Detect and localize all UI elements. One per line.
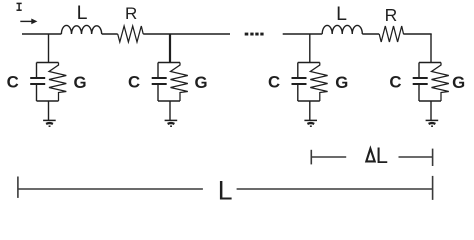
wire: ground stub branch 1 (48, 101, 50, 120)
svg-text:C: C (268, 73, 280, 92)
wire: top bar of parallel C-G branch 2 (158, 62, 180, 64)
wire: top bar of parallel C-G branch 1 (37, 62, 59, 64)
dimension tick L left (17, 177, 19, 198)
wire: main line segment 3 (143, 33, 230, 35)
resistor R2 (379, 26, 403, 42)
svg-text:R: R (385, 5, 398, 25)
label I (current) (17, 3, 22, 10)
svg-text:G: G (452, 73, 465, 92)
dimension tick L right (432, 176, 434, 200)
wire: top bar of parallel C-G branch 4 (419, 62, 441, 64)
ground (branch 4) (426, 120, 439, 126)
conductance (resistor) G (branch 4) (432, 63, 449, 102)
svg-text:G: G (194, 73, 207, 92)
svg-text:L: L (336, 3, 347, 25)
wire: bottom bar of parallel C-G branch 1 (37, 100, 59, 102)
wire: main line segment 1 (22, 33, 61, 35)
inductor L1 (61, 25, 101, 34)
svg-text:L: L (77, 2, 88, 24)
wire: main line segment 2 (102, 33, 118, 35)
current direction arrow (20, 19, 37, 25)
ellipsis dots (repeated sections) (245, 33, 264, 36)
wire: bottom bar of parallel C-G branch 2 (158, 100, 180, 102)
capacitor C (branch 1) (30, 63, 45, 102)
dimension line DeltaL (right segment) (399, 156, 434, 158)
svg-text:C: C (389, 73, 401, 92)
wire: top bar of parallel C-G branch 3 (298, 62, 320, 64)
svg-text:R: R (125, 4, 137, 23)
resistor R1 (118, 26, 144, 42)
ground (branch 3) (304, 120, 317, 126)
dimension line L (left segment) (18, 188, 203, 190)
svg-text:C: C (7, 73, 19, 92)
wire: ground stub branch 2 (169, 101, 171, 120)
wire: shunt stub from main line to branch 4 (430, 34, 432, 63)
capacitor C (branch 4) (413, 63, 428, 102)
ground (branch 2) (165, 120, 178, 126)
conductance (resistor) G (branch 3) (310, 63, 327, 102)
wire: main line segment 5 (362, 33, 379, 35)
capacitor C (branch 2) (152, 63, 167, 102)
dimension line DeltaL (left segment) (311, 156, 346, 158)
svg-text:G: G (335, 73, 348, 92)
wire: main line segment 4 (283, 33, 323, 35)
wire: shunt stub from main line to branch 1 (48, 34, 50, 63)
capacitor C (branch 3) (292, 63, 307, 102)
wire: ground stub branch 4 (430, 101, 432, 120)
conductance (resistor) G (branch 2) (171, 63, 188, 102)
wire: main line segment 6 (403, 33, 431, 35)
wire: ground stub branch 3 (309, 101, 311, 120)
wire: shunt stub from main line to branch 2 (169, 34, 171, 63)
inductor L2 (322, 25, 362, 34)
ground (branch 1) (43, 120, 56, 126)
svg-text:L: L (218, 175, 233, 205)
conductance (resistor) G (branch 1) (49, 63, 66, 102)
svg-text:L: L (376, 143, 388, 168)
wire: shunt stub from main line to branch 3 (309, 34, 311, 63)
wire: bottom bar of parallel C-G branch 3 (298, 100, 320, 102)
svg-text:C: C (128, 73, 140, 92)
wire: bottom bar of parallel C-G branch 4 (419, 100, 441, 102)
label DeltaL (366, 149, 374, 162)
svg-text:G: G (73, 73, 86, 92)
dimension tick DeltaL left (310, 150, 312, 165)
dimension tick DeltaL right (432, 149, 434, 166)
dimension line L (right segment) (237, 188, 433, 190)
